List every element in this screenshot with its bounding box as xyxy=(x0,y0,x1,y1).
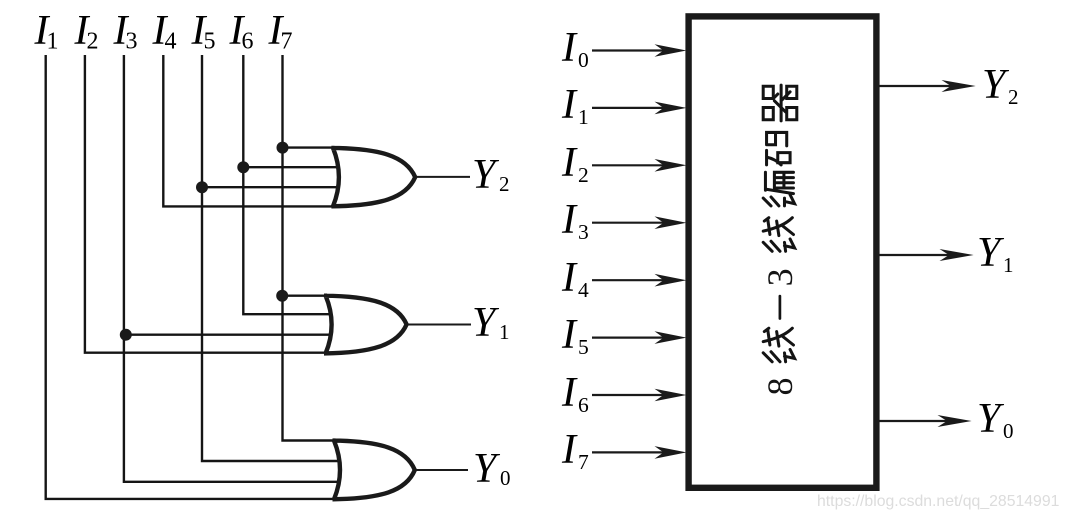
svg-text:1: 1 xyxy=(578,105,589,129)
label I6 right xyxy=(561,370,589,417)
svg-text:Y: Y xyxy=(982,62,1010,108)
wire I4 vertical+horizontal to Y2 gate xyxy=(163,55,335,206)
svg-text:4: 4 xyxy=(578,278,589,302)
glyph 码 xyxy=(767,132,791,164)
wire I1 vertical+horizontal to Y0 gate xyxy=(46,55,336,499)
svg-text:I: I xyxy=(561,427,578,473)
wire I6 branch to Y2 input 2 xyxy=(243,166,344,168)
or-gate Y1 xyxy=(324,296,407,354)
svg-text:6: 6 xyxy=(578,393,589,417)
arrow I6 xyxy=(592,389,687,402)
wire I7 branch to Y1 input 1 xyxy=(282,295,329,297)
arrow I1 xyxy=(592,102,687,115)
svg-text:2: 2 xyxy=(499,172,510,196)
label I4 xyxy=(152,8,177,55)
label I5 right xyxy=(561,312,589,359)
svg-text:5: 5 xyxy=(578,335,589,359)
label Y0 left xyxy=(473,446,511,492)
label I3 xyxy=(113,8,138,55)
svg-text:I: I xyxy=(561,370,578,416)
glyph 器 xyxy=(763,85,797,121)
svg-text:5: 5 xyxy=(204,29,216,55)
svg-text:Y: Y xyxy=(977,396,1005,442)
junction dot I5/Y2 xyxy=(196,181,208,193)
arrow I4 xyxy=(592,274,687,287)
svg-text:7: 7 xyxy=(281,29,293,55)
svg-text:I: I xyxy=(561,312,578,358)
label Y2 right xyxy=(982,62,1019,109)
label I4 right xyxy=(561,255,589,302)
glyph 线 (second) xyxy=(763,328,794,362)
arrow I3 xyxy=(592,216,687,229)
svg-text:0: 0 xyxy=(500,466,511,490)
wire Y0 output xyxy=(415,469,468,471)
svg-text:4: 4 xyxy=(165,29,177,55)
svg-text:Y: Y xyxy=(472,152,500,198)
label I1 right xyxy=(561,82,589,129)
label I0 right xyxy=(561,25,589,72)
svg-text:6: 6 xyxy=(242,29,254,55)
wire Y1 output xyxy=(408,324,471,326)
or-gate Y0 xyxy=(333,441,415,500)
svg-text:https://blog.csdn.net/qq_28514: https://blog.csdn.net/qq_28514991 xyxy=(817,493,1060,510)
label Y0 right xyxy=(977,396,1014,443)
junction dot I7/Y1 xyxy=(276,290,288,302)
svg-text:7: 7 xyxy=(578,450,589,474)
svg-text:I: I xyxy=(561,197,578,243)
arrow Y1 out xyxy=(879,249,974,261)
label I3 right xyxy=(561,197,589,244)
svg-text:3: 3 xyxy=(578,220,589,244)
arrow I2 xyxy=(592,159,687,172)
label I7 xyxy=(268,8,293,55)
label I5 xyxy=(191,8,216,55)
wire Y2 output xyxy=(416,176,470,178)
svg-text:I: I xyxy=(561,255,578,301)
svg-text:2: 2 xyxy=(578,163,589,187)
junction dot I3/Y1 xyxy=(120,329,132,341)
svg-text:1: 1 xyxy=(1003,253,1014,277)
arrow I5 xyxy=(592,331,687,344)
svg-text:Y: Y xyxy=(977,230,1005,276)
input arrows I0-I7 xyxy=(592,44,687,459)
glyph dash xyxy=(779,296,782,318)
label I2 xyxy=(74,8,99,55)
vertical text 8线-3线编码器 inside box (hand-drawn glyphs, rotated -90) xyxy=(760,85,800,395)
label I6 xyxy=(229,8,254,55)
wire I7 vertical+horizontal to Y0 gate xyxy=(283,55,337,441)
arrow Y0 out xyxy=(879,415,972,427)
junction dot I6/Y2 xyxy=(237,161,249,173)
wire I5 branch to Y2 input 3 xyxy=(202,186,344,188)
label Y2 left xyxy=(472,152,510,198)
svg-text:0: 0 xyxy=(578,48,589,72)
junction dot I7/Y2 xyxy=(277,142,289,154)
wire I6 vertical+horizontal to Y1 gate xyxy=(243,55,338,314)
label Y1 left xyxy=(472,300,510,346)
arrow Y2 out xyxy=(879,80,976,92)
label I2 right xyxy=(561,140,589,187)
svg-text:1: 1 xyxy=(47,29,59,55)
label I1 xyxy=(34,8,59,55)
svg-text:2: 2 xyxy=(87,29,99,55)
label Y1 right xyxy=(977,230,1014,277)
label I7 right xyxy=(561,427,589,474)
svg-text:3: 3 xyxy=(760,268,800,286)
svg-text:8: 8 xyxy=(760,378,800,396)
svg-text:2: 2 xyxy=(1008,85,1019,109)
svg-text:3: 3 xyxy=(126,29,138,55)
arrow I7 xyxy=(592,446,687,459)
glyph 编 xyxy=(763,172,794,206)
glyph 线 (first) xyxy=(763,218,794,252)
svg-text:I: I xyxy=(561,25,578,71)
encoder box xyxy=(689,16,877,487)
wire I2 vertical+horizontal to Y1 gate xyxy=(85,55,329,353)
wire I7 branch to Y2 input 1 xyxy=(283,146,336,148)
svg-text:1: 1 xyxy=(499,320,510,344)
wire I3 vertical+horizontal to Y0 gate xyxy=(124,55,345,482)
svg-text:0: 0 xyxy=(1003,419,1014,443)
output arrows Y2 Y1 Y0 xyxy=(879,80,976,427)
svg-text:I: I xyxy=(561,82,578,128)
wire I3 branch to Y1 input 3 xyxy=(126,334,338,336)
svg-text:I: I xyxy=(561,140,578,186)
svg-text:Y: Y xyxy=(472,300,500,346)
or-gate Y2 xyxy=(331,148,415,206)
svg-text:Y: Y xyxy=(473,446,501,492)
wire I5 vertical+horizontal to Y0 gate xyxy=(202,55,345,461)
arrow I0 xyxy=(592,44,687,57)
